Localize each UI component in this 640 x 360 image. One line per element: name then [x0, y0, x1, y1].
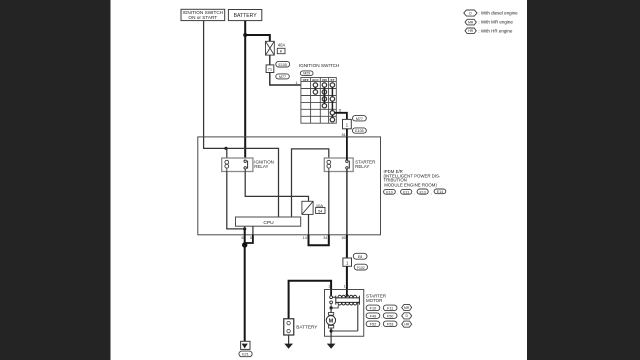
connector oval F49 [366, 313, 380, 319]
svg-text:M29: M29 [303, 72, 310, 76]
legend badge MR [465, 19, 476, 25]
svg-text:HR: HR [468, 29, 473, 33]
connector box 1 (M77/E105) [343, 119, 352, 128]
connector oval E10 [384, 189, 396, 194]
svg-text:E105: E105 [355, 129, 363, 133]
battery symbol box [284, 319, 294, 335]
svg-text:F10: F10 [370, 307, 377, 311]
wire: IPDM pin 51 feed to starter relay contact [346, 137, 348, 160]
svg-text:CPU: CPU [263, 220, 274, 226]
wire: connector 1 to IPDM pin 51 [346, 129, 348, 137]
svg-text:: With MR engine: : With MR engine [478, 20, 513, 25]
switch contact circles column ACC [313, 83, 317, 94]
connector box 1 (E8/F102) [343, 258, 352, 266]
ignition relay [222, 158, 253, 172]
svg-text:MR: MR [404, 306, 410, 310]
CPU box [236, 217, 301, 226]
svg-text:M77: M77 [356, 117, 363, 121]
connector oval E14 [434, 189, 446, 194]
white diagram panel [111, 0, 528, 360]
starter motor outline box [325, 290, 364, 337]
svg-text:MR: MR [468, 20, 474, 24]
ignition switch contact grid [301, 78, 336, 124]
wire: motor to ground [330, 328, 332, 336]
wire: coil return to motor ground [331, 330, 358, 332]
svg-text:M77: M77 [279, 75, 286, 79]
connector oval F50 [383, 313, 397, 319]
wire: fuse 54 to pin 14 [308, 214, 310, 234]
grid header labels OFF ACC ON ST [303, 78, 335, 82]
wire: ignition relay contact to fuse 54 [245, 172, 308, 202]
svg-text:MODULE ENGINE ROOM): MODULE ENGINE ROOM) [384, 182, 437, 187]
svg-text:F49: F49 [370, 314, 377, 318]
node: coil feed [346, 294, 349, 297]
svg-text:2: 2 [329, 285, 331, 289]
node: ground bus junction (bold) [242, 242, 247, 247]
wire: CPU pin 6 [244, 226, 246, 229]
legend badge HR [465, 28, 476, 34]
connector oval E21 [239, 351, 252, 357]
svg-text:F53: F53 [387, 323, 394, 327]
connector oval F10 [366, 305, 380, 311]
svg-text:54: 54 [318, 208, 323, 213]
svg-text:14: 14 [303, 236, 307, 240]
svg-text:RELAY: RELAY [355, 164, 369, 169]
wire: ignition relay coil to CPU ground node [227, 172, 245, 229]
legend badge D [464, 10, 477, 16]
svg-text:: With diesel engine: : With diesel engine [478, 10, 518, 15]
svg-text:E11: E11 [403, 190, 409, 194]
wire: battery main feed (bold) [244, 21, 246, 161]
wire: ignition switch ON/START to IPDM top [203, 21, 205, 137]
svg-text:F102: F102 [357, 266, 365, 270]
svg-text:OFF: OFF [303, 78, 309, 82]
IPDM E/R outline box [198, 137, 381, 235]
svg-text:,: , [381, 307, 382, 311]
svg-text:E10: E10 [386, 190, 392, 194]
node: battery junction [243, 33, 247, 37]
wire: tap down to ignition relay coil [226, 148, 228, 158]
ground: starter motor [327, 336, 336, 349]
wire: pin1 into solenoid coil [346, 290, 348, 297]
separator commas F rows [381, 307, 382, 327]
svg-text:40A: 40A [278, 43, 286, 48]
fuse 10A (54) [302, 201, 313, 214]
svg-text:1: 1 [344, 285, 346, 289]
svg-text:,: , [397, 191, 398, 195]
badge HR (starter) [402, 321, 412, 327]
svg-text:50: 50 [342, 236, 346, 240]
wire: connector to starter motor pin 1 [346, 266, 348, 289]
separator commas E row [397, 191, 432, 195]
wire: ignition switch ST output to connector 1 [335, 113, 347, 120]
wire: pin 50 to connector 1 (E8/F102) [346, 235, 348, 258]
wire: CPU to starter relay coil [292, 149, 329, 217]
connector oval E105 (lower) [353, 128, 367, 133]
starter motor M symbol [326, 313, 335, 329]
switch contact circles column ST [330, 83, 334, 122]
svg-text:F11: F11 [387, 307, 393, 311]
svg-text:RELAY: RELAY [254, 164, 268, 169]
svg-text:K: K [280, 49, 283, 54]
svg-text:5: 5 [250, 236, 252, 240]
wire: ignition signal into CPU [204, 137, 279, 217]
starter solenoid contact [330, 290, 333, 308]
label box K [277, 48, 285, 53]
svg-text:M: M [329, 319, 334, 325]
svg-text:,: , [431, 191, 432, 195]
wire: ground bus down to E21 [244, 245, 246, 347]
svg-text:,: , [414, 191, 415, 195]
svg-text:ON or START: ON or START [188, 15, 217, 20]
svg-text:1: 1 [295, 81, 297, 85]
svg-text:,: , [381, 315, 382, 319]
connector oval F11 [383, 305, 397, 311]
ground connector box E21 [241, 341, 250, 349]
svg-text:IGNITION SWITCH: IGNITION SWITCH [299, 63, 340, 68]
svg-text:E8: E8 [358, 255, 362, 259]
wire: starter relay contact to pin 50 [346, 169, 348, 235]
fusible link 40A K [266, 41, 275, 55]
svg-text:E105: E105 [278, 63, 286, 67]
badge D (starter) [402, 313, 412, 319]
wire: connector 71 to ignition switch pin 1 [270, 73, 301, 86]
connector oval F102 [354, 264, 367, 270]
power source box IGNITION SWITCH ON or START [181, 9, 225, 20]
connector oval F53 [383, 321, 397, 327]
svg-text:E13: E13 [419, 190, 425, 194]
svg-text:: With HR engine: : With HR engine [478, 29, 513, 34]
connector oval E13 [417, 189, 428, 194]
svg-text:E21: E21 [242, 353, 249, 357]
svg-text:BATTERY: BATTERY [296, 325, 318, 330]
svg-text:ST: ST [330, 78, 334, 82]
svg-text:ACC: ACC [312, 78, 319, 82]
connector oval M29 [300, 71, 313, 76]
svg-text:ON: ON [322, 78, 327, 82]
ground: battery [284, 335, 293, 349]
label IPDM E/R block [384, 169, 441, 187]
wire: starter relay coil to pin 34 [328, 172, 330, 235]
switch contact circles column ON [322, 83, 326, 108]
svg-text:F50: F50 [387, 314, 394, 318]
connector oval E8 [353, 253, 367, 259]
svg-text:D: D [469, 11, 472, 15]
wire: pin14 to pin34 external link [309, 235, 329, 246]
svg-text:E14: E14 [437, 190, 443, 194]
label box 54 [316, 208, 325, 214]
starter solenoid coil windings [333, 295, 360, 331]
wire: fusible link to connector 71 [269, 55, 271, 65]
svg-text:34: 34 [323, 236, 327, 240]
wire: CPU pin 5 [252, 226, 254, 235]
svg-text:,: , [381, 323, 382, 327]
svg-text:HR: HR [404, 323, 409, 327]
power source box BATTERY [228, 10, 261, 21]
connector oval M77 [276, 74, 290, 79]
wire: battery to starter motor pin 2 (bold) [289, 281, 332, 319]
svg-text:6: 6 [241, 236, 243, 240]
node: CPU pin6 junction [243, 227, 246, 230]
node: motor ground junction [330, 329, 333, 332]
svg-text:F52: F52 [370, 323, 377, 327]
wire: junction to fusible link [245, 35, 270, 41]
node: ignition relay coil tap [224, 147, 227, 150]
svg-text:BATTERY: BATTERY [234, 13, 258, 19]
svg-text:MOTOR: MOTOR [366, 298, 382, 303]
connector box 71 [266, 65, 274, 73]
wire: junction to motor [330, 308, 332, 313]
connector oval F52 [366, 321, 380, 327]
starter relay [324, 158, 353, 172]
node: solenoid to motor junction [330, 306, 333, 309]
wire: coil body lower-left to junction [331, 305, 338, 308]
badge MR (starter) [402, 304, 412, 310]
contact connecting bars [315, 87, 332, 117]
connector oval M77 (upper) [353, 116, 367, 121]
connector oval E105 [276, 61, 290, 67]
connector oval E11 [401, 189, 412, 194]
svg-text:71: 71 [268, 67, 273, 72]
